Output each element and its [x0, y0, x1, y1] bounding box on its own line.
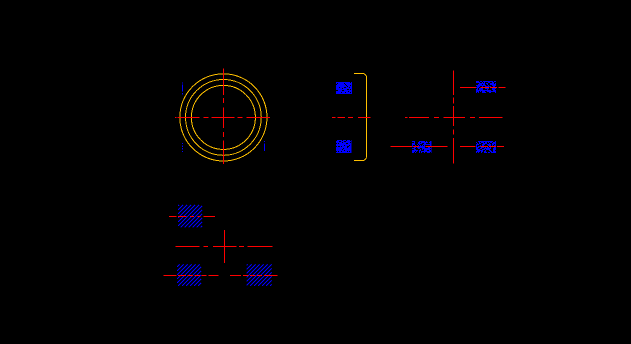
hidden tick left top: [182, 82, 184, 94]
middle view centerline: [332, 117, 371, 119]
outer circle: [180, 74, 267, 161]
inner circle (bore): [191, 85, 255, 149]
top pin section (speckled): [476, 81, 496, 93]
front view vertical centerline: [223, 69, 225, 164]
bottom sections centerline right: [230, 275, 278, 277]
bottom-right pin centerline: [460, 146, 504, 148]
bottom-right pin section (speckled): [476, 141, 496, 153]
right view vertical centerline: [453, 71, 455, 164]
hidden tick right bottom: [264, 141, 266, 151]
bracket (gold): [354, 74, 367, 161]
bottom-left hatched section: [177, 265, 201, 287]
bottom key section (speckled): [336, 140, 352, 153]
bottom view vertical centerline: [224, 230, 226, 263]
top-left hatched section: [178, 205, 202, 228]
bottom-left pin centerline: [391, 146, 449, 148]
top pin centerline: [460, 87, 506, 89]
middle circle: [186, 80, 262, 156]
front view horizontal centerline: [175, 117, 270, 119]
hidden tick left bottom (dotted): [182, 143, 184, 152]
bottom sections centerline left: [164, 275, 219, 277]
top key section (speckled): [336, 82, 352, 94]
bottom view horizontal centerline: [176, 246, 273, 248]
bottom-left pin section (speckled): [412, 141, 432, 153]
right view horizontal centerline: [405, 117, 503, 119]
bottom-right hatched section: [247, 265, 272, 287]
top-left section centerline: [169, 216, 215, 218]
